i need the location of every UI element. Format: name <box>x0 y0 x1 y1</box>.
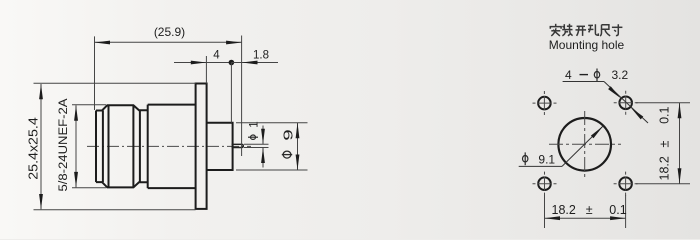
char: zhuang (mount) <box>562 24 572 36</box>
coupling nut bottom silhouette with chamfers <box>96 182 148 187</box>
dimension phi1 (pin diameter) <box>244 121 269 167</box>
svg-text:9: 9 <box>281 129 296 141</box>
svg-text:Mounting hole: Mounting hole <box>549 38 625 52</box>
svg-text:(25.9): (25.9) <box>154 25 185 39</box>
svg-text:0.1: 0.1 <box>658 106 672 123</box>
rear cylinder (solder bucket, dia 9) <box>207 123 233 170</box>
dimension point (dot terminator) <box>229 60 235 123</box>
char: an (install) <box>550 24 561 36</box>
char: cun (size) <box>612 24 623 35</box>
connector body front face <box>147 105 149 189</box>
center bore circle (phi 9.1) <box>549 111 621 179</box>
connector body top edge <box>148 104 196 106</box>
label phi 9.1 with leader <box>519 126 604 167</box>
coupling nut top silhouette with chamfers <box>96 105 148 110</box>
svg-text:0.1: 0.1 <box>609 203 626 217</box>
connector body bottom edge <box>148 187 196 189</box>
center contact pin (dia 1) <box>232 144 244 147</box>
square mounting flange 25.4x25.4 <box>196 84 207 209</box>
svg-text:5/8-24UNEF-2A: 5/8-24UNEF-2A <box>56 98 70 192</box>
mounting hole top-right (phi 3.2) <box>614 91 638 115</box>
mounting hole bottom-right (phi 3.2) <box>614 172 638 196</box>
svg-text:4: 4 <box>213 50 220 62</box>
label 4 - phi 3.2 with leader <box>563 68 648 123</box>
char: kai (open) <box>576 26 587 36</box>
dimension 25.4x25.4 (flange size) <box>26 83 196 210</box>
nut rear face line <box>139 110 141 182</box>
dimension 1.8 (pin protrusion) <box>231 50 278 65</box>
svg-text:9.1: 9.1 <box>538 153 555 167</box>
dimension phi9 (rear cylinder diameter) <box>236 123 308 170</box>
dimension 18.2 +/- 0.1 vertical (hole spacing) <box>636 103 690 184</box>
nut knurl line left <box>108 105 110 187</box>
dimension 4 (rear cylinder length) <box>174 50 231 84</box>
svg-text:±: ± <box>658 140 672 147</box>
svg-text:18.2: 18.2 <box>658 156 672 180</box>
connector mating face edge <box>95 111 97 183</box>
dimension (25.9) overall length <box>95 25 242 156</box>
svg-text:25.4x25.4: 25.4x25.4 <box>26 117 41 180</box>
nut knurl line right <box>132 105 134 187</box>
nut chamfer tangent line left <box>102 111 104 183</box>
title (chinese): an zhuang kai kong chi cun (drawn glyphs) <box>550 24 622 36</box>
char: chi (rule) <box>600 25 610 36</box>
svg-text:1.8: 1.8 <box>253 50 269 62</box>
dimension 18.2 +/- 0.1 horizontal (hole spacing) <box>545 195 627 228</box>
mounting hole top-left (phi 3.2) <box>533 91 557 115</box>
mounting hole bottom-left (phi 3.2) <box>533 172 557 196</box>
svg-text:3.2: 3.2 <box>612 68 629 82</box>
dimension 5/8-24UNEF-2A (coupling thread) <box>56 98 106 192</box>
svg-text:18.2: 18.2 <box>552 203 576 217</box>
svg-text:4: 4 <box>565 68 572 82</box>
centerline: connector axis <box>87 145 251 147</box>
svg-text:±: ± <box>586 203 593 217</box>
char: kong (hole) <box>588 24 598 35</box>
